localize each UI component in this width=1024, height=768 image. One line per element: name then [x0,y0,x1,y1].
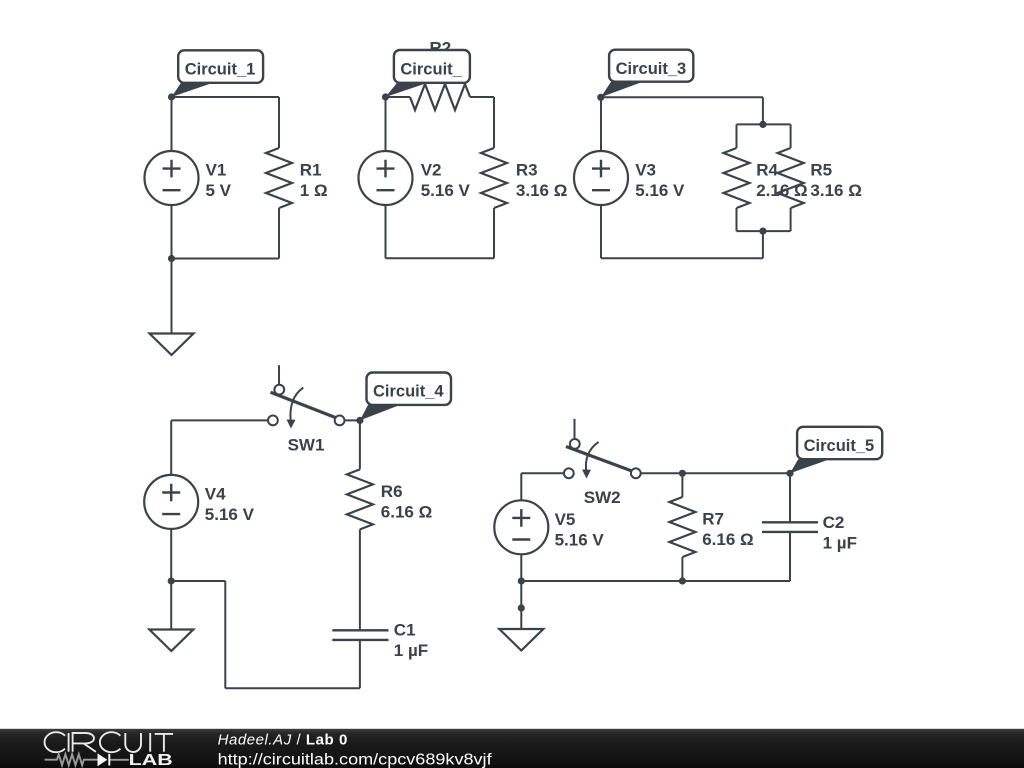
wire right branch lower circuit 1 [278,208,280,259]
voltage source V5 [494,500,548,554]
wire SW2 top stub [574,419,576,439]
svg-text:V1: V1 [206,160,227,179]
switch SW2 left throw contact [564,468,574,478]
svg-text:Circuit_1: Circuit_1 [185,60,256,78]
svg-text:Circuit_4: Circuit_4 [373,383,444,401]
svg-text:5.16 V: 5.16 V [635,181,685,200]
wire V2 bottom stub [385,205,387,259]
wire V3 top stub [600,97,602,151]
svg-text:V3: V3 [635,160,656,179]
node B1 junction dot [168,255,175,262]
node R7 bottom junction dot [679,577,686,584]
node label callout Circuit_4 [360,373,451,421]
svg-text:Circuit_5: Circuit_5 [804,437,875,455]
wire right branch upper circuit 1 [278,97,280,148]
wire ground stem circuit 5 [520,581,522,629]
wire node down to R6 [359,420,361,469]
node A3 junction dot [597,94,604,101]
svg-text:6.16 Ω: 6.16 Ω [381,503,432,522]
wire down to V5 [520,473,522,500]
capacitor C1 [332,630,388,640]
switch SW1 arm [271,392,337,418]
voltage source V4 [144,475,198,529]
switch SW1 pole contact [335,416,345,426]
node A2 junction dot [382,93,389,100]
wire bottom rail circuit 3 [601,257,763,259]
wire bottom rail circuit 2 [386,257,495,259]
wire parallel top rail [737,123,791,125]
wire from node right [171,580,225,582]
wire top rail circuit 3 [601,96,763,98]
svg-text:V2: V2 [421,160,442,179]
wire R5 lower stub [790,208,792,231]
node label callout Circuit_1 [172,50,264,97]
wire right drop to parallel pair [762,97,764,124]
svg-text:5.16 V: 5.16 V [555,530,605,549]
switch SW1 top contact [274,385,284,395]
node label callout Circuit_3 [601,50,694,98]
wire C2 top stub [789,473,791,522]
node label callout Circuit_5 [790,427,882,474]
switch SW1 motion arc arrow [287,388,304,429]
svg-text:1 Ω: 1 Ω [300,181,328,200]
svg-text:5 V: 5 V [206,181,232,200]
node A5 junction dot [786,470,793,477]
wire right down to bottom rail [224,581,226,688]
wire top rail circuit 1 [172,96,280,98]
svg-text:5.16 V: 5.16 V [421,181,471,200]
node B4 junction dot [168,577,175,584]
resistor R5 [778,148,804,208]
svg-text:Hadeel.AJ / Lab 0: Hadeel.AJ / Lab 0 [218,732,348,749]
svg-text:3.16 Ω: 3.16 Ω [810,181,861,200]
wire R5 upper stub [790,124,792,148]
svg-text:R6: R6 [381,482,403,501]
wire V3 bottom stub [600,205,602,259]
ground circuit 4 [149,630,193,652]
resistor R3 [481,148,507,208]
wire C2 bottom stub [789,532,791,581]
wire down to V4 [170,420,172,475]
wire parallel bottom rail [737,230,791,232]
svg-text:LAB: LAB [129,752,173,768]
wire from node to R2 [386,96,411,98]
wire stem below parallel pair [762,231,764,258]
svg-text:R7: R7 [702,509,724,528]
ground circuit 1 [150,334,194,356]
resistor R2 [410,84,470,110]
wire V4 bottom stub [170,528,172,581]
switch SW2 top contact [570,439,580,449]
node parallel bottom junction dot [759,228,766,235]
svg-text:R5: R5 [810,160,832,179]
svg-text:V5: V5 [555,510,576,529]
resistor R7 [669,497,695,557]
svg-text:C1: C1 [394,620,416,639]
wire bottom rail circuit 1 [172,258,280,260]
node B5 junction dot [518,577,525,584]
node label callout Circuit_2 [386,50,470,97]
resistor R1 [266,148,292,208]
wire left throw to corner [521,472,564,474]
node R7 top junction dot [679,470,686,477]
wire SW1 top stub [278,365,280,385]
CircuitLab logo resistor-diode glyph [45,754,129,765]
resistor R4 [724,148,750,208]
svg-text:SW2: SW2 [584,488,621,507]
wire pole to C2 branch top rail [641,472,790,474]
CircuitLab logo diode symbol [98,754,109,766]
node parallel top junction dot [759,121,766,128]
wire R6 to C1 [359,529,361,630]
svg-text:1 µF: 1 µF [394,641,428,660]
wire V1 bottom stub [171,205,173,259]
wire V5 bottom stub [520,554,522,581]
voltage source V1 [145,151,199,205]
wire R7 top stub [681,473,683,497]
svg-text:Circuit_3: Circuit_3 [616,60,687,78]
wire V1 top stub [171,97,173,152]
node A1 junction dot [168,93,175,100]
wire V2 top stub [385,97,387,152]
switch SW2 arm [566,447,632,472]
wire R7 bottom stub [681,557,683,581]
svg-text:R1: R1 [300,160,322,179]
node ground upper junction dot [518,604,525,611]
svg-text:1 µF: 1 µF [823,533,857,552]
wire R4 upper stub [736,124,738,148]
svg-text:R3: R3 [516,160,538,179]
switch SW1 left throw contact [268,416,278,426]
wire left throw to corner [171,419,268,421]
wire bottom rail circuit 4 [225,687,360,689]
wire ground stem circuit 4 [170,581,172,630]
svg-text:3.16 Ω: 3.16 Ω [516,181,567,200]
svg-text:SW1: SW1 [288,436,325,455]
switch SW2 pole contact [631,468,641,478]
switch SW2 motion arc arrow [582,442,599,479]
wire right branch upper circuit 2 [493,97,495,148]
ground circuit 5 [499,629,543,651]
node A4 junction dot [356,417,363,424]
voltage source V3 [574,151,628,205]
svg-text:6.16 Ω: 6.16 Ω [702,530,753,549]
wire right branch lower circuit 2 [493,208,495,258]
wire pole to node [345,419,360,421]
capacitor C2 [762,522,818,532]
wire R2 to right corner [470,96,494,98]
wire C1 bottom stub [359,640,361,688]
svg-text:http://circuitlab.com/cpcv689k: http://circuitlab.com/cpcv689kv8vjf [218,752,493,768]
wire ground stem circuit 1 [171,259,173,334]
footer bar [0,729,1024,768]
svg-text:V4: V4 [205,484,226,503]
wire bottom rail circuit 5 [521,580,790,582]
resistor R6 [347,469,373,529]
svg-text:C2: C2 [823,513,845,532]
svg-text:2.16 Ω: 2.16 Ω [756,181,807,200]
svg-text:Circuit_: Circuit_ [400,60,462,78]
voltage source V2 [359,151,413,205]
svg-text:R4: R4 [756,160,778,179]
wire R4 lower stub [736,208,738,231]
svg-text:5.16 V: 5.16 V [205,505,255,524]
CircuitLab logo wordmark CIRCUIT [45,732,174,752]
